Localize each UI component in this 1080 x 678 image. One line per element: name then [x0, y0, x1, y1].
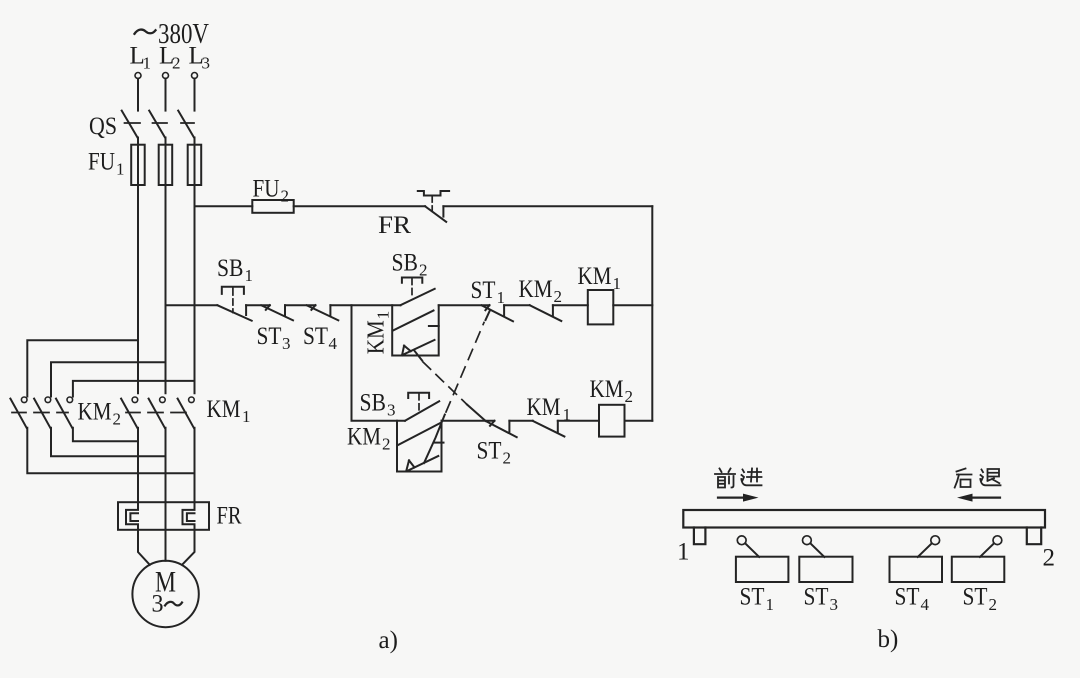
svg-text:3: 3 — [282, 334, 291, 353]
svg-text:SB: SB — [392, 250, 419, 277]
workbench bar — [683, 510, 1045, 528]
svg-text:KM: KM — [364, 320, 390, 354]
wire KM1 to coil KM2 — [558, 420, 599, 422]
svg-text:SB: SB — [360, 390, 387, 417]
contact FR (thermal NC) — [418, 191, 449, 222]
svg-text:SB: SB — [217, 255, 244, 282]
label houtui (backward) drawn glyphs — [955, 469, 1001, 488]
svg-text:b): b) — [878, 626, 899, 653]
limit switch box ST4 — [890, 536, 943, 582]
coil KM1 — [588, 290, 614, 324]
mechanical link ST1 (dashed) — [446, 323, 484, 413]
svg-text:ST: ST — [804, 584, 829, 611]
svg-text:ST: ST — [477, 438, 502, 465]
QS blade pole2 — [149, 111, 165, 138]
svg-text:4: 4 — [921, 595, 930, 614]
svg-text:3: 3 — [152, 591, 164, 618]
block frame (stubs) — [392, 305, 439, 355]
wire right rail — [651, 206, 653, 420]
mechanical link ST2 (dashed) — [423, 362, 467, 405]
svg-text:1: 1 — [374, 311, 393, 320]
wire L2 below contacts — [165, 428, 167, 561]
contactor KM2 main pole1 — [10, 397, 27, 428]
block frame (stubs) — [397, 421, 442, 472]
svg-text:2: 2 — [625, 387, 634, 406]
wire L2 vertical — [165, 185, 167, 393]
contact KM1 (NC interlock) — [533, 421, 565, 437]
svg-text:2: 2 — [1043, 545, 1056, 572]
reverse parallel block — [397, 393, 445, 472]
backward arrow — [971, 497, 1000, 499]
svg-text:KM: KM — [590, 376, 624, 403]
label qianjin (forward) drawn glyphs — [715, 469, 762, 488]
wire ST2 to KM1 — [509, 420, 532, 422]
wire L3 vertical — [194, 185, 196, 393]
svg-text:1: 1 — [766, 595, 775, 614]
svg-text:ST: ST — [963, 584, 988, 611]
right stop 2 — [1027, 528, 1041, 545]
svg-text:ST: ST — [471, 277, 496, 304]
svg-text:KM: KM — [527, 394, 561, 421]
SECTION: forward branch parallel block — [392, 278, 439, 361]
contact KM2 aux (NO self-hold) — [397, 423, 440, 445]
wire L2 drop — [165, 79, 167, 111]
wire block to ST1 — [439, 304, 490, 306]
pushbutton SB2 (NO) — [401, 289, 435, 305]
wire block to ST2 — [442, 420, 495, 422]
svg-text:KM: KM — [347, 424, 381, 451]
coil KM2 — [599, 405, 625, 437]
limit switch ST3 (NC) — [261, 305, 293, 320]
wire L2 to SB1 — [166, 304, 218, 306]
limit switch box ST3 — [799, 536, 852, 582]
limit switch box ST2 — [952, 536, 1005, 582]
KM1 linkage dashes — [126, 412, 186, 414]
contact ST1 NO (limit, wedge) — [407, 456, 438, 471]
svg-text:1: 1 — [242, 407, 251, 426]
wire ST3 to ST4 — [285, 304, 315, 306]
wire coil KM1 to rail — [613, 304, 652, 306]
svg-text:2: 2 — [554, 287, 563, 306]
motor M circle — [132, 561, 198, 627]
left stop 1 — [694, 528, 706, 545]
KM2 linkage dashes — [12, 412, 68, 414]
contactor KM1 main pole3 — [178, 397, 195, 428]
svg-text:1: 1 — [677, 539, 690, 566]
wire SB1 to ST3 — [246, 304, 270, 306]
contactor KM1 main pole1 — [121, 397, 138, 428]
wire KM2 pole3 cross to L1 — [73, 428, 138, 442]
svg-text:KM: KM — [207, 396, 241, 423]
forward arrow — [718, 497, 746, 499]
svg-text:ST: ST — [303, 323, 328, 350]
svg-text:3: 3 — [387, 401, 396, 420]
svg-text:1: 1 — [613, 274, 622, 293]
wire L3 to FU2 — [195, 205, 253, 207]
svg-text:1: 1 — [497, 288, 506, 307]
contact KM1 aux (NO self-hold) — [393, 311, 434, 331]
limit switch box ST1 — [736, 536, 789, 582]
pushbutton SB1 (stop NC) — [217, 287, 251, 321]
svg-text:ST: ST — [257, 323, 282, 350]
wire L3 below contacts — [194, 428, 196, 502]
svg-text:FU: FU — [88, 149, 115, 176]
svg-text:4: 4 — [329, 334, 338, 353]
limit switch ST2 (NC) — [486, 421, 517, 437]
svg-text:2: 2 — [172, 54, 181, 73]
terminal L3 — [192, 73, 198, 79]
wire left rail down — [352, 305, 406, 421]
wire FR to right rail — [443, 205, 652, 207]
svg-text:QS: QS — [89, 113, 117, 140]
QS linkage dashes — [125, 122, 195, 124]
limit switch ST1 (NC) — [482, 305, 513, 321]
wire L1 to motor — [138, 530, 150, 565]
wire ST1 to KM2 — [504, 304, 529, 306]
svg-text:2: 2 — [503, 449, 512, 468]
wire L3 QS to FU1 — [194, 138, 196, 145]
svg-text:a): a) — [379, 627, 398, 654]
svg-text:2: 2 — [419, 261, 428, 280]
wire KM2 tap L1 — [27, 340, 138, 396]
wire L3 to motor — [182, 530, 195, 565]
wire L3 drop — [194, 79, 196, 111]
fuse FU2 — [252, 200, 293, 213]
svg-text:KM: KM — [78, 399, 112, 426]
terminal L1 — [135, 73, 141, 79]
wire KM2 to coil KM1 — [553, 304, 588, 306]
wire L1 QS to FU1 — [137, 138, 139, 145]
label ~380V — [135, 30, 156, 34]
limit switch ST4 (NC) — [307, 305, 339, 320]
wire coil KM2 to rail — [625, 420, 653, 422]
svg-text:KM: KM — [519, 276, 553, 303]
svg-text:FU: FU — [253, 176, 280, 203]
contact ST2 NO (limit, wedge) — [403, 340, 435, 355]
terminal L2 — [163, 73, 169, 79]
svg-text:2: 2 — [989, 595, 998, 614]
contact KM2 (NC interlock) — [530, 305, 562, 321]
svg-text:2: 2 — [382, 435, 391, 454]
fuse FU1 pole2 — [159, 145, 173, 185]
wire FU2 to FR — [294, 205, 425, 207]
svg-text:3: 3 — [202, 54, 211, 73]
FR heater L1 — [126, 502, 138, 530]
svg-text:1: 1 — [143, 54, 152, 73]
wire KM2 pole2 cross to L2 — [51, 428, 166, 457]
label KM1 (rotated) — [364, 311, 393, 355]
fuse FU1 pole3 — [188, 145, 202, 185]
pushbutton SB3 (NO) — [405, 401, 439, 421]
svg-text:2: 2 — [281, 187, 290, 206]
fuse FU1 pole1 — [131, 145, 145, 185]
svg-text:KM: KM — [578, 263, 612, 290]
svg-text:ST: ST — [895, 584, 920, 611]
svg-text:FR: FR — [217, 503, 242, 530]
wire KM2 pole1 cross to L3 — [27, 428, 194, 474]
FR box — [118, 502, 209, 530]
switch QS — [122, 111, 194, 138]
wire ST4 to block — [330, 304, 400, 306]
svg-text:3: 3 — [830, 595, 839, 614]
wire L2 QS to FU1 — [165, 138, 167, 145]
contactor KM2 main pole3 — [56, 397, 73, 428]
QS blade pole1 — [122, 111, 138, 138]
wire KM2 tap L2 — [51, 362, 166, 396]
contactor KM2 main pole2 — [34, 397, 51, 428]
wire L1 vertical — [137, 185, 139, 393]
svg-text:FR: FR — [378, 212, 411, 239]
svg-text:1: 1 — [245, 266, 254, 285]
wire L1 drop — [137, 79, 139, 111]
wire KM2 tap L3 — [73, 381, 195, 397]
QS blade pole3 — [178, 111, 194, 138]
contactor KM1 main pole2 — [149, 397, 166, 428]
svg-text:ST: ST — [740, 584, 765, 611]
svg-text:2: 2 — [113, 410, 122, 429]
wire L1 below contacts — [137, 428, 139, 502]
svg-text:1: 1 — [116, 160, 125, 179]
FR heater L3 — [183, 502, 195, 530]
